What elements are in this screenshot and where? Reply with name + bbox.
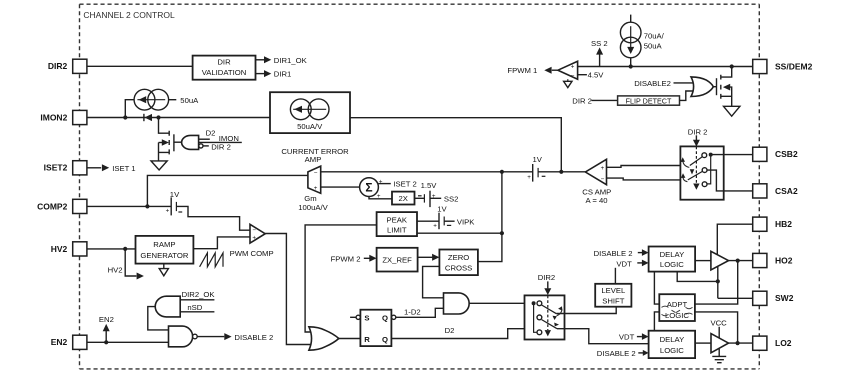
svg-text:DIR1: DIR1 — [274, 70, 292, 79]
channel 2 control dashed boundary — [80, 4, 760, 369]
svg-text:VDT: VDT — [616, 259, 632, 268]
block 2X — [392, 192, 415, 205]
ground under Q2 — [724, 106, 740, 116]
svg-text:VCC: VCC — [711, 319, 728, 328]
block LEVEL SHIFT — [595, 284, 631, 307]
wire DIR2 pin to DIR VALIDATION — [87, 65, 193, 67]
pin SW2 — [753, 291, 794, 305]
svg-text:A = 40: A = 40 — [585, 196, 607, 205]
ground under Q1 — [151, 161, 167, 170]
svg-text:+: + — [571, 63, 575, 70]
svg-text:HV2: HV2 — [51, 244, 68, 254]
pin COMP2 — [37, 199, 87, 213]
svg-text:DISABLE 2: DISABLE 2 — [597, 349, 636, 358]
svg-text:DISABLE 2: DISABLE 2 — [594, 249, 633, 258]
svg-text:DIR1_OK: DIR1_OK — [274, 56, 308, 65]
svg-text:PWM COMP: PWM COMP — [230, 249, 274, 258]
svg-text:SS2: SS2 — [444, 195, 459, 204]
pin DIR2 — [48, 59, 87, 73]
wire FLIP DETECT to OR — [680, 91, 698, 100]
block DELAY LOGIC low side — [649, 331, 696, 358]
power VCC — [711, 319, 728, 338]
wire PEAK LIMIT to OR gate — [305, 225, 377, 332]
wire delay logics to ADPT — [654, 272, 659, 305]
wire LEVEL SHIFT to VDT input — [614, 268, 616, 284]
svg-text:−: − — [252, 227, 256, 234]
output HV2 tap — [108, 249, 144, 280]
svg-text:+: + — [314, 185, 318, 192]
switch box S1 CSB/CSA direction mux — [680, 127, 723, 199]
battery B3 1V VIPK — [417, 204, 475, 229]
svg-text:ISET 1: ISET 1 — [112, 164, 135, 173]
svg-text:DISABLE 2: DISABLE 2 — [234, 333, 273, 342]
wire OR to Q2 gate — [713, 86, 716, 88]
svg-text:HV2: HV2 — [108, 265, 123, 274]
junction node IMON2/Q1 — [156, 115, 160, 119]
svg-text:SW2: SW2 — [775, 293, 794, 303]
svg-text:1V: 1V — [532, 155, 542, 164]
output DIR1_OK — [256, 56, 308, 65]
svg-text:DIR: DIR — [217, 57, 231, 66]
svg-text:ISET2: ISET2 — [44, 163, 68, 173]
svg-text:Q: Q — [382, 314, 388, 323]
op-amp U3 current error amp Gm 100uA/V — [281, 147, 349, 212]
ground marker under ramp generator — [159, 264, 168, 276]
svg-text:RAMP: RAMP — [153, 240, 175, 249]
switch box S2 output direction mux — [525, 273, 565, 339]
svg-text:DIR2: DIR2 — [538, 273, 556, 282]
wire mux to LEVEL SHIFT — [556, 307, 616, 314]
block 50uA/V transconductor — [270, 92, 350, 133]
svg-text:EN2: EN2 — [99, 315, 114, 324]
gate G4 AND (DIR2_OK nSD, left-facing) — [155, 290, 215, 317]
output ISET 1 from ISET2 pin — [87, 164, 136, 173]
output EN2 tap — [99, 315, 114, 342]
svg-text:+: + — [601, 165, 605, 172]
output DISABLE 2 — [197, 333, 273, 342]
block ZERO CROSS — [439, 250, 478, 276]
svg-text:2X: 2X — [398, 194, 407, 203]
battery B1 1V on COMP2 — [166, 190, 183, 215]
svg-text:EN2: EN2 — [51, 337, 68, 347]
input DISABLE 2 low side — [597, 349, 649, 358]
wire latch Q / D2 to direction mux — [391, 318, 537, 339]
svg-text:FLIP DETECT: FLIP DETECT — [626, 96, 672, 105]
block DELAY LOGIC high side — [649, 247, 696, 272]
svg-text:VIPK: VIPK — [457, 217, 475, 226]
wire delay logic to SW2 rail — [677, 266, 718, 298]
svg-text:IMON: IMON — [219, 134, 239, 143]
node dot at x502 — [500, 170, 504, 174]
op-amp U8 CS AMP A=40 — [582, 159, 611, 205]
svg-text:LOGIC: LOGIC — [660, 346, 684, 355]
pin CSA2 — [753, 184, 798, 198]
svg-text:−: − — [314, 169, 318, 176]
svg-text:100uA/V: 100uA/V — [298, 203, 328, 212]
svg-text:CHANNEL 2 CONTROL: CHANNEL 2 CONTROL — [83, 10, 175, 20]
svg-text:+: + — [166, 207, 170, 214]
wire COMP2 to error amp output — [87, 205, 171, 207]
svg-text:LIMIT: LIMIT — [387, 226, 407, 235]
wire SS/DEM2 rail — [578, 66, 753, 68]
block PEAK LIMIT — [377, 212, 417, 236]
pin HB2 — [753, 217, 793, 231]
svg-text:HO2: HO2 — [775, 255, 793, 265]
svg-text:1.5V: 1.5V — [421, 181, 438, 190]
svg-text:D2: D2 — [445, 326, 455, 335]
wire CS sense vertical to ZERO CROSS — [478, 172, 502, 262]
wire IMON2 pin to 50uA/V box — [87, 117, 270, 119]
svg-text:ZX_REF: ZX_REF — [382, 255, 412, 264]
ground under LO2 driver — [712, 349, 726, 363]
svg-text:1V: 1V — [437, 204, 447, 213]
svg-text:CSA2: CSA2 — [775, 186, 798, 196]
wire CS node battery to CS amp — [538, 171, 585, 173]
svg-text:SS 2: SS 2 — [591, 39, 608, 48]
svg-text:VDT: VDT — [619, 333, 635, 342]
input DIR 2 to FLIP DETECT — [572, 97, 617, 106]
svg-text:IMON2: IMON2 — [40, 112, 67, 122]
wire OR to latch R — [339, 338, 361, 340]
wire AND to NAND — [148, 307, 169, 330]
comparator U6 PWM COMP — [230, 224, 274, 258]
svg-text:LO2: LO2 — [775, 338, 792, 348]
battery B4 1V CS offset — [527, 155, 545, 181]
diode D2 on IMON2 line — [144, 114, 152, 121]
block FLIP DETECT — [618, 96, 680, 105]
svg-text:50uA/V: 50uA/V — [297, 122, 323, 131]
wire COMP2 battery to PWM comparator — [176, 206, 250, 230]
svg-text:VALIDATION: VALIDATION — [202, 68, 247, 77]
svg-text:D2: D2 — [206, 129, 216, 138]
wire PEAK LIMIT to CS sense line — [417, 232, 502, 234]
wire CS amp + input to mux — [607, 166, 690, 168]
wire HO2 output — [729, 260, 753, 262]
svg-text:DIR 2: DIR 2 — [572, 97, 592, 106]
gate G5 NAND disable — [169, 326, 198, 347]
input VDT low side — [619, 333, 649, 342]
summer U4 sigma — [360, 178, 417, 200]
driver A2 LO2 — [711, 334, 729, 353]
svg-text:Σ: Σ — [365, 181, 372, 195]
wire RAMP GENERATOR to PWM comparator — [193, 237, 250, 249]
junction node CS/IMON — [559, 170, 563, 174]
input DISABLE 2 high side — [594, 249, 649, 258]
current source I2 50uA — [125, 89, 199, 117]
svg-text:Gm: Gm — [304, 194, 316, 203]
svg-text:COMP2: COMP2 — [37, 201, 68, 211]
wire mux to CSA2 — [707, 170, 753, 191]
pin SS/DEM2 — [753, 59, 813, 73]
svg-text:ZERO: ZERO — [448, 253, 469, 262]
input DISABLE2 to OR — [634, 79, 697, 88]
block ADPT LOGIC — [659, 294, 695, 321]
junction node SS rail / current source — [629, 64, 633, 68]
gate G1 IMON and (left-facing, D2 / DIR2 inputs) — [182, 129, 242, 152]
svg-text:DELAY: DELAY — [660, 250, 685, 259]
pin CSB2 — [753, 147, 798, 161]
svg-text:1V: 1V — [170, 190, 180, 199]
wire ADPT to LO2 node — [695, 312, 738, 343]
svg-text:HB2: HB2 — [775, 219, 792, 229]
svg-text:nSD: nSD — [187, 303, 202, 312]
svg-text:70uA/: 70uA/ — [644, 32, 665, 41]
wire ZX_REF to ZERO CROSS — [418, 254, 440, 261]
svg-text:DIR2_OK: DIR2_OK — [182, 290, 216, 299]
comparator U7 FPWM1 — [507, 61, 604, 87]
input FPWM 2 — [331, 254, 377, 263]
pin HO2 — [753, 253, 793, 267]
svg-text:Q: Q — [382, 335, 388, 344]
wire AND out to direction mux — [469, 302, 533, 304]
current source I1 70uA/50uA — [620, 15, 664, 67]
wire error amp inverting input / CS node — [321, 171, 533, 173]
svg-text:+: + — [379, 178, 383, 185]
svg-text:FPWM 1: FPWM 1 — [507, 66, 537, 75]
svg-text:ADPT: ADPT — [667, 300, 688, 309]
gate G3 OR (pwm reset) — [309, 327, 339, 350]
pin ISET2 — [44, 161, 87, 175]
svg-text:1-D2: 1-D2 — [404, 308, 421, 317]
svg-text:GENERATOR: GENERATOR — [140, 251, 188, 260]
svg-text:CSB2: CSB2 — [775, 149, 798, 159]
wire mux to CSB2 — [711, 154, 753, 156]
wire HV2 pin to ramp generator — [87, 248, 136, 250]
block ZX_REF — [377, 248, 418, 272]
wire HB2 bootstrap rail — [717, 224, 752, 255]
svg-text:LEVEL: LEVEL — [601, 286, 626, 295]
svg-text:S: S — [364, 314, 369, 323]
sawtooth ramp symbol — [200, 253, 223, 267]
svg-text:DIR2: DIR2 — [48, 61, 68, 71]
driver A1 HO2 — [711, 251, 729, 270]
wire HO2 node to ADPT sense — [695, 261, 738, 305]
output DIR1 — [256, 70, 292, 79]
wire ZERO CROSS to AND gate — [423, 266, 444, 297]
pin LO2 — [753, 336, 792, 350]
svg-text:FPWM 2: FPWM 2 — [331, 254, 361, 263]
wire SW2 node — [718, 297, 753, 299]
gate G2 AND (zero cross qualify) — [444, 293, 470, 314]
svg-text:+: + — [252, 235, 256, 242]
svg-text:−: − — [571, 73, 575, 80]
wire delay logic to HO2 driver — [695, 260, 711, 262]
wire latch 1-D2 to AND gate — [396, 308, 444, 317]
wire CS amp - input to mux — [607, 178, 688, 180]
gate G6 OR (demag disable) — [691, 77, 713, 97]
input VDT high side — [616, 259, 648, 268]
svg-text:50uA: 50uA — [180, 96, 199, 105]
block RAMP GENERATOR — [136, 236, 194, 264]
svg-text:+: + — [433, 223, 437, 230]
svg-text:DELAY: DELAY — [660, 335, 685, 344]
latch U5 SR — [350, 310, 396, 346]
pin HV2 — [51, 242, 87, 256]
svg-text:DIR 2: DIR 2 — [211, 143, 231, 152]
svg-text:SHIFT: SHIFT — [602, 297, 625, 306]
battery B2 1.5V SS2 — [415, 181, 459, 207]
output SS 2 tap — [591, 39, 608, 67]
block U2 DIR VALIDATION — [193, 56, 256, 80]
svg-text:AMP: AMP — [305, 155, 322, 164]
wire error amp + input to sigma — [321, 186, 360, 188]
svg-text:PEAK: PEAK — [387, 216, 408, 225]
svg-text:LOGIC: LOGIC — [660, 260, 684, 269]
wire delay logic to LO2 driver — [695, 342, 711, 344]
transistor Q2 SS discharge — [717, 64, 734, 106]
svg-text:50uA: 50uA — [644, 42, 663, 51]
svg-text:−: − — [601, 176, 605, 183]
junction node IMON2/50uA — [123, 115, 127, 119]
svg-text:DIR 2: DIR 2 — [688, 127, 708, 136]
wire mux to low delay logic — [557, 329, 649, 344]
wire PWM comp out down to OR — [265, 234, 313, 345]
svg-text:+: + — [527, 174, 531, 181]
pin EN2 — [51, 335, 87, 349]
pin IMON2 — [40, 110, 87, 124]
svg-text:R: R — [364, 335, 370, 344]
svg-text:CROSS: CROSS — [445, 264, 472, 273]
svg-text:4.5V: 4.5V — [588, 71, 605, 80]
svg-text:ISET 2: ISET 2 — [393, 180, 416, 189]
transistor Q1 IMON pulldown — [159, 118, 183, 161]
wire EN2 pin to NAND — [87, 341, 169, 343]
svg-text:SS/DEM2: SS/DEM2 — [775, 61, 813, 71]
wire LO2 output — [729, 342, 753, 344]
svg-text:DISABLE2: DISABLE2 — [634, 79, 671, 88]
wire 50uA/V to CS node — [350, 118, 561, 172]
